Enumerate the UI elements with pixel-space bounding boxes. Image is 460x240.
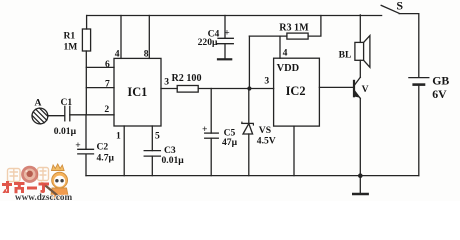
speaker BL (359, 15, 361, 43)
transistor emitter arrow (354, 90, 361, 98)
svg-text:GB: GB (432, 73, 449, 87)
resistor R1 (85, 51, 87, 115)
svg-text:7: 7 (105, 79, 110, 90)
svg-text:1M: 1M (64, 41, 78, 52)
svg-text:4.5V: 4.5V (257, 135, 276, 146)
wire top rail (87, 15, 382, 17)
wire IC2 pin4 drop (279, 36, 281, 58)
wire C1 to IC1 pin2 (70, 114, 114, 116)
svg-text:VDD: VDD (277, 63, 300, 74)
svg-text:V: V (362, 84, 369, 95)
ground (C4) (218, 58, 231, 60)
wire IC1 pin6 stub (86, 66, 114, 68)
svg-text:1: 1 (116, 131, 121, 142)
svg-text:R3 1M: R3 1M (279, 23, 309, 34)
svg-text:BL: BL (339, 49, 352, 60)
capacitor C2 (85, 154, 87, 175)
wire right side down (418, 86, 420, 176)
svg-text:+: + (75, 140, 80, 151)
switch S (381, 5, 399, 13)
svg-text:4: 4 (283, 48, 288, 59)
svg-text:www.dzsc.com: www.dzsc.com (15, 192, 73, 201)
capacitor C3 on pin5 drop (151, 126, 153, 151)
wire IC2 bottom pin drop (293, 126, 295, 176)
red watermark glyphs (2, 181, 49, 193)
zener hooks (241, 122, 242, 124)
op-amp U1: IC1 box (114, 58, 161, 126)
svg-text:+: + (202, 124, 207, 135)
svg-text:6V: 6V (432, 87, 447, 101)
svg-text:5: 5 (155, 131, 160, 142)
transistor Q1: V (354, 77, 360, 85)
wire R2 to node (198, 88, 273, 90)
ground (359, 176, 361, 194)
wire IC1 pin8 riser (148, 16, 150, 59)
svg-text:6: 6 (105, 59, 110, 70)
svg-text:3: 3 (164, 77, 169, 88)
wire IC1 pin1 drop (123, 126, 125, 176)
svg-text:8: 8 (144, 49, 149, 60)
resistor R2 (177, 86, 198, 93)
svg-text:IC1: IC1 (127, 85, 147, 99)
svg-text:4: 4 (115, 49, 120, 60)
svg-text:S: S (396, 0, 403, 13)
microphone A (32, 108, 48, 124)
battery GB plates (409, 77, 429, 79)
svg-text:0.01μ: 0.01μ (162, 155, 185, 166)
op-amp U2: IC2 box (274, 58, 320, 126)
capacitor C4 (224, 16, 226, 39)
svg-text:220μ: 220μ (198, 37, 218, 48)
svg-text:R1: R1 (64, 31, 76, 42)
svg-text:3: 3 (264, 75, 269, 86)
svg-text:C1: C1 (61, 97, 73, 108)
node pin3 junction (247, 86, 251, 90)
zener diode VS (248, 89, 250, 124)
svg-text:C2: C2 (97, 141, 109, 152)
svg-text:2: 2 (104, 104, 109, 115)
wire bottom rail (86, 175, 419, 177)
wire top right to battery corner (399, 14, 419, 78)
wire IC1 pin4 riser (120, 16, 122, 59)
svg-text:IC2: IC2 (286, 84, 306, 98)
wire IC2 output to base (319, 86, 353, 88)
svg-text:+: + (224, 27, 229, 38)
svg-text:47μ: 47μ (222, 137, 238, 148)
node ground junction (358, 173, 363, 178)
svg-text:0.01μ: 0.01μ (54, 126, 77, 137)
wire mic to C1 (48, 115, 65, 117)
resistor R3 (248, 36, 250, 88)
wire IC1 pin3 to R2 (161, 88, 177, 90)
watermark (2, 164, 73, 202)
capacitor C1 (64, 106, 66, 121)
svg-text:4.7μ: 4.7μ (97, 152, 115, 163)
capacitor C5 (210, 89, 212, 134)
svg-text:A: A (35, 97, 42, 108)
svg-text:R2 100: R2 100 (172, 73, 202, 84)
wire IC1 pin7 stub (86, 87, 114, 89)
